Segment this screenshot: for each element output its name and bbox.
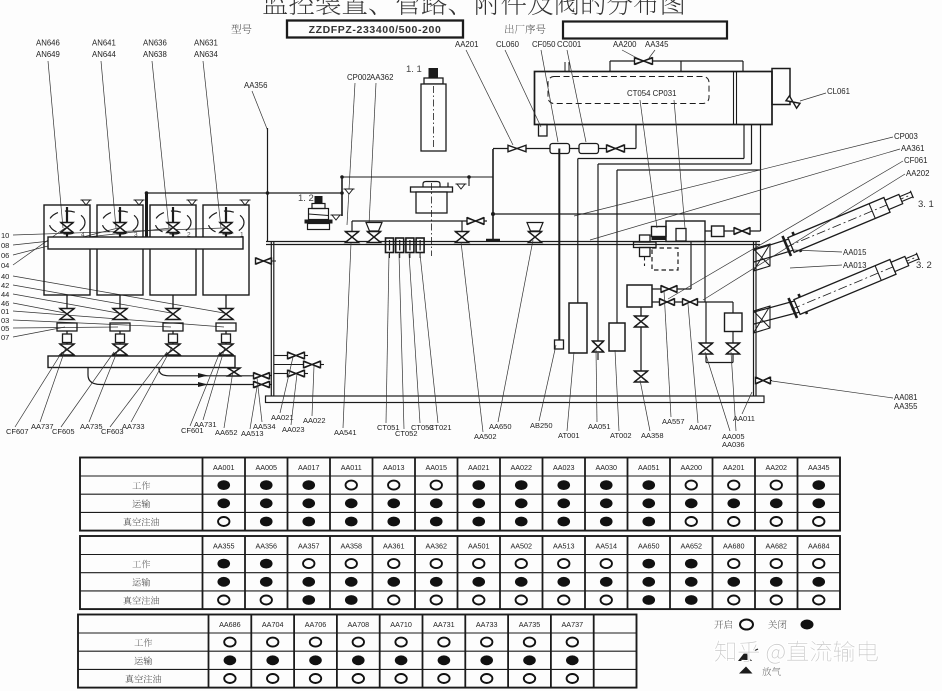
svg-text:AA202: AA202 [765, 463, 787, 472]
svg-text:AA735: AA735 [80, 422, 103, 431]
valve AA051 [593, 341, 604, 352]
cooler 3 breather vent [134, 199, 145, 201]
table 2: valve states AA355..AA684 [80, 536, 840, 609]
svg-text:AA650: AA650 [489, 422, 512, 431]
svg-text:AA362: AA362 [425, 542, 447, 551]
table 3: valve states AA686..AA737 [78, 615, 637, 688]
gas relay pipe L5 with filters [493, 148, 636, 150]
table 1: valve states AA001..AA345 [80, 458, 840, 531]
conservator top pipe with valve AA200/AA345 [610, 60, 743, 62]
svg-text:CF605: CF605 [52, 427, 75, 436]
pipe L6 to AT001 [578, 158, 744, 160]
svg-text:AA502: AA502 [474, 432, 497, 441]
svg-text:AA501: AA501 [468, 542, 490, 551]
svg-text:AA345: AA345 [645, 40, 669, 49]
valve AA023 [274, 373, 288, 375]
svg-text:AA200: AA200 [613, 40, 637, 49]
svg-text:AA731: AA731 [194, 420, 217, 429]
svg-text:AN631: AN631 [194, 39, 218, 48]
svg-text:1. 1: 1. 1 [406, 64, 422, 75]
svg-text:CF607: CF607 [6, 427, 29, 436]
svg-text:AA015: AA015 [843, 248, 867, 257]
valve AA021 [274, 355, 288, 357]
svg-text:AA684: AA684 [808, 542, 830, 551]
valve at conservator inlet [607, 145, 625, 152]
cooler 2 lower valve [166, 344, 180, 355]
legend drain valve symbol [738, 652, 752, 661]
svg-text:CF061: CF061 [904, 156, 927, 165]
svg-text:AA356: AA356 [255, 542, 277, 551]
svg-text:AA021: AA021 [468, 463, 490, 472]
conservator drain fitting CL060 [539, 125, 548, 137]
cooler 4 flange [57, 323, 77, 331]
svg-text:AA021: AA021 [271, 413, 294, 422]
valves AA047 row [652, 301, 733, 303]
valve AA201 [508, 145, 526, 152]
svg-text:AA650: AA650 [638, 542, 660, 551]
svg-text:AA023: AA023 [282, 425, 305, 434]
valve AA652 (manifold drain) [228, 368, 240, 376]
svg-text:AA733: AA733 [122, 422, 145, 431]
legend 开启 (open) [714, 620, 732, 629]
svg-text:44: 44 [1, 290, 9, 299]
svg-text:AA022: AA022 [510, 463, 532, 472]
valve AA022 [274, 364, 304, 366]
transformer tank top plate [266, 241, 760, 243]
filter CF050 [550, 144, 570, 154]
svg-text:CL061: CL061 [827, 87, 850, 96]
svg-text:AA015: AA015 [425, 463, 447, 472]
svg-text:AA652: AA652 [680, 542, 702, 551]
thermometer pocket flange [492, 149, 494, 240]
svg-text:AN641: AN641 [92, 39, 116, 48]
svg-text:AA051: AA051 [638, 463, 660, 472]
svg-text:AN646: AN646 [36, 39, 60, 48]
svg-text:AA737: AA737 [562, 620, 584, 629]
svg-text:AA355: AA355 [213, 542, 235, 551]
valve AA534 [254, 373, 270, 379]
svg-text:AA682: AA682 [765, 542, 787, 551]
leader AA356 to pipe [252, 91, 268, 130]
serial number box (empty) [563, 22, 727, 39]
svg-text:AA201: AA201 [455, 40, 478, 49]
bushing 3.2 [788, 249, 921, 317]
cooler 4 lower valve [60, 344, 74, 355]
cooler unit 2 body [150, 205, 196, 295]
oil pipe to small tank [342, 176, 493, 178]
cooler 2 fan (dashed circle) [155, 211, 191, 234]
svg-text:AA686: AA686 [219, 620, 241, 629]
svg-text:AA737: AA737 [31, 422, 54, 431]
flange fitting on tank top [640, 235, 651, 242]
svg-text:AA023: AA023 [553, 463, 575, 472]
svg-text:3. 1: 3. 1 [918, 199, 934, 210]
svg-text:AA708: AA708 [348, 620, 370, 629]
cooler 3 flange [110, 323, 130, 331]
bushing 3.1 turret [754, 238, 792, 250]
bushing 3.1 [782, 187, 915, 255]
svg-text:AA017: AA017 [298, 463, 320, 472]
cooler 2 fan valve [172, 207, 174, 237]
cooler 4 fan valve [66, 207, 68, 237]
svg-text:01: 01 [1, 307, 9, 316]
svg-text:AA051: AA051 [588, 422, 611, 431]
cooler 1 flange [216, 323, 236, 331]
transformer tank left wall [270, 242, 272, 397]
svg-text:AA358: AA358 [641, 431, 664, 440]
svg-text:AA706: AA706 [305, 620, 327, 629]
svg-text:AN649: AN649 [36, 50, 60, 59]
svg-text:07: 07 [1, 333, 9, 342]
cooler 1 fan (dashed circle) [208, 211, 244, 234]
svg-text:AT001: AT001 [558, 431, 580, 440]
flow arrow upper [198, 373, 208, 378]
label 出厂序号 [505, 24, 546, 34]
svg-text:AA557: AA557 [662, 417, 685, 426]
valve AA005 [700, 343, 713, 354]
svg-text:AA362: AA362 [370, 73, 393, 82]
pipe junction nodes [145, 191, 149, 195]
svg-text:AN634: AN634 [194, 50, 219, 59]
pipe from cooler header up to oil line [145, 193, 148, 237]
svg-text:AA013: AA013 [843, 261, 866, 270]
cooler unit 4 body [44, 205, 90, 295]
pump discharge pipe and vent [341, 177, 343, 216]
cooler 3 small fitting [116, 334, 125, 343]
valve AA557 [652, 288, 691, 290]
CT051/052/053/021 terminal box cluster [386, 238, 394, 253]
cooler 2 breather vent [187, 199, 198, 201]
vent funnel CP002/AA362 [366, 223, 382, 232]
AT001 device [569, 303, 587, 353]
svg-text:AA358: AA358 [340, 542, 362, 551]
svg-text:AA680: AA680 [723, 542, 745, 551]
svg-text:40: 40 [1, 272, 9, 281]
svg-text:CC001: CC001 [557, 40, 581, 49]
svg-text:AA710: AA710 [390, 620, 412, 629]
pipe L3 across tank top [352, 220, 487, 222]
svg-text:AA202: AA202 [906, 169, 929, 178]
cooler 1 breather vent [240, 199, 251, 201]
cooler 2 flange [163, 323, 183, 331]
return pipe (upper) from manifold to tank [159, 368, 254, 376]
pipe L4 along tank top [493, 213, 761, 215]
OLTC filter [712, 226, 725, 237]
flow arrow lower [198, 382, 208, 387]
tap changer dashed body below tank top [652, 248, 678, 270]
svg-text:AA030: AA030 [595, 463, 617, 472]
vent funnel AA650 on tank top [527, 223, 543, 232]
svg-text:CF603: CF603 [101, 427, 124, 436]
svg-text:AN644: AN644 [92, 50, 117, 59]
svg-text:AA001: AA001 [213, 463, 235, 472]
cooler 4 breather vent [81, 199, 92, 201]
leaders from top labels [466, 50, 513, 145]
OLTC conservator pipe [705, 230, 761, 232]
conservator tank [535, 72, 773, 125]
svg-text:AA514: AA514 [595, 542, 617, 551]
cooler 1 lower valve [219, 344, 233, 355]
small expansion tank body [416, 192, 447, 213]
pipe L8 to AT002 [617, 169, 761, 171]
cooler 4 fan (dashed circle) [49, 211, 85, 234]
transformer tank bottom plate [266, 396, 765, 403]
conservator divider [733, 72, 735, 125]
svg-text:AA355: AA355 [894, 402, 918, 411]
svg-text:AA357: AA357 [298, 542, 320, 551]
conservator drop pipes [743, 125, 745, 159]
pipe L7 to valve AA051 [598, 163, 752, 165]
oil storage tank 1.1 (vertical cylinder) [429, 68, 439, 78]
cooler 2 small fitting [169, 334, 178, 343]
svg-text:06: 06 [1, 251, 9, 260]
upper cooler header pipe (band across coolers) [48, 237, 243, 249]
svg-text:AA513: AA513 [553, 542, 575, 551]
vent at pipe near small tank [468, 177, 470, 186]
legend 关闭 (closed) [768, 620, 786, 629]
svg-text:AB250: AB250 [530, 421, 553, 430]
valve AA081/AA355 on right wall [756, 380, 772, 382]
lower collecting manifold [48, 356, 235, 368]
svg-text:CL060: CL060 [496, 40, 520, 49]
svg-text:AA361: AA361 [383, 542, 405, 551]
tap changer head boxes on tank top [652, 227, 667, 237]
svg-text:CT054 CP031: CT054 CP031 [627, 89, 676, 98]
cooler 1 small fitting [222, 334, 231, 343]
svg-text:42: 42 [1, 281, 9, 290]
cooler 3 fan (dashed circle) [102, 211, 138, 234]
title 监控装置、管路、附件及阀的分布图 (top-cropped) [263, 0, 684, 15]
valve AA650 on pipe L3 [467, 218, 484, 224]
svg-text:AA541: AA541 [334, 428, 357, 437]
svg-text:AA534: AA534 [253, 422, 276, 431]
label 型号 [231, 24, 251, 34]
cooler 2 lower piping: pipe, valves, flange [172, 295, 174, 309]
cooler 4 small fitting [63, 334, 72, 343]
valve AA502 on tank top [461, 221, 463, 232]
oil pump 1.2 [315, 196, 323, 204]
cooler 1 fan valve [225, 207, 227, 237]
conservator right end box [772, 69, 790, 105]
svg-text:AN638: AN638 [143, 50, 167, 59]
cooler 3 fan valve [119, 207, 121, 237]
watermark 知乎@直流输电 [715, 641, 878, 664]
svg-text:CF050: CF050 [532, 40, 556, 49]
svg-text:1. 2: 1. 2 [298, 193, 314, 204]
svg-text:AA200: AA200 [680, 463, 702, 472]
svg-text:08: 08 [1, 241, 9, 250]
svg-text:AA047: AA047 [689, 423, 712, 432]
svg-text:AA081: AA081 [894, 393, 917, 402]
oil pipe L1 to pump [146, 192, 342, 194]
svg-text:AA652: AA652 [215, 428, 238, 437]
svg-text:AA345: AA345 [808, 463, 830, 472]
svg-text:AA011: AA011 [733, 414, 755, 423]
cooler unit 1 body [203, 205, 249, 295]
svg-text:ZZDFPZ-233400/500-200: ZZDFPZ-233400/500-200 [309, 24, 442, 36]
svg-text:CP003: CP003 [894, 132, 918, 141]
svg-text:AT002: AT002 [610, 431, 632, 440]
cooler unit 3 body [97, 205, 143, 295]
svg-text:AA704: AA704 [262, 620, 284, 629]
svg-text:CT021: CT021 [429, 423, 452, 432]
return pipe (lower) from manifold to tank [88, 368, 254, 385]
svg-text:AA502: AA502 [510, 542, 532, 551]
svg-text:AA361: AA361 [901, 144, 924, 153]
svg-text:CP002: CP002 [347, 73, 371, 82]
svg-text:AA356: AA356 [244, 81, 267, 90]
small bracket on conservator top [564, 62, 566, 72]
gas relay feed pipes into tank [690, 242, 692, 290]
svg-text:3. 2: 3. 2 [916, 260, 932, 271]
svg-text:04: 04 [1, 261, 9, 270]
valve AA036 [727, 343, 740, 354]
valve on OLTC pipe [734, 228, 750, 234]
svg-text:AA201: AA201 [723, 463, 745, 472]
svg-text:AA731: AA731 [433, 620, 455, 629]
legend triangle 放气 [739, 667, 753, 674]
cooler 3 lower valve [113, 344, 127, 355]
AA356 riser pipe [267, 128, 269, 242]
svg-text:AN636: AN636 [143, 39, 167, 48]
bushing 3.2 turret [754, 300, 798, 312]
small expansion tank cap [423, 182, 440, 188]
model number box ZZDFPZ-233400/500-200 [287, 21, 463, 38]
svg-text:AA735: AA735 [519, 620, 541, 629]
valve CL061 (angled) [786, 96, 800, 108]
svg-text:AA005: AA005 [255, 463, 277, 472]
conservator air bag (dashed) [548, 77, 709, 104]
svg-text:AA036: AA036 [722, 440, 745, 449]
filter CC001 [579, 144, 599, 154]
drain line AA358 with two valves [640, 307, 642, 316]
valve AA513 [254, 382, 270, 388]
svg-text:AA011: AA011 [341, 463, 362, 472]
cooler 1 lower piping: pipe, valves, flange [225, 295, 227, 309]
AB250 sampling device [555, 340, 564, 349]
oil filter AA005/AA036 branch [732, 302, 734, 313]
transformer tank right wall [753, 242, 755, 397]
AB250 sampling drop pipe [558, 149, 560, 341]
valve on left wall stub [256, 260, 276, 262]
leader lines from fan labels to cooler fans [48, 61, 63, 228]
svg-text:10: 10 [1, 231, 9, 240]
svg-text:AA733: AA733 [476, 620, 498, 629]
AT002 device [609, 323, 625, 351]
small expansion tank (2) top plate [411, 187, 453, 192]
valve AA541 on tank top [351, 221, 353, 232]
gas relay box [627, 285, 652, 307]
cooler 4 lower piping: pipe, valves, flange [66, 295, 68, 309]
svg-text:05: 05 [1, 324, 9, 333]
svg-text:AA013: AA013 [383, 463, 405, 472]
cooler 3 lower piping: pipe, valves, flange [119, 295, 121, 309]
svg-text:AA022: AA022 [303, 416, 326, 425]
